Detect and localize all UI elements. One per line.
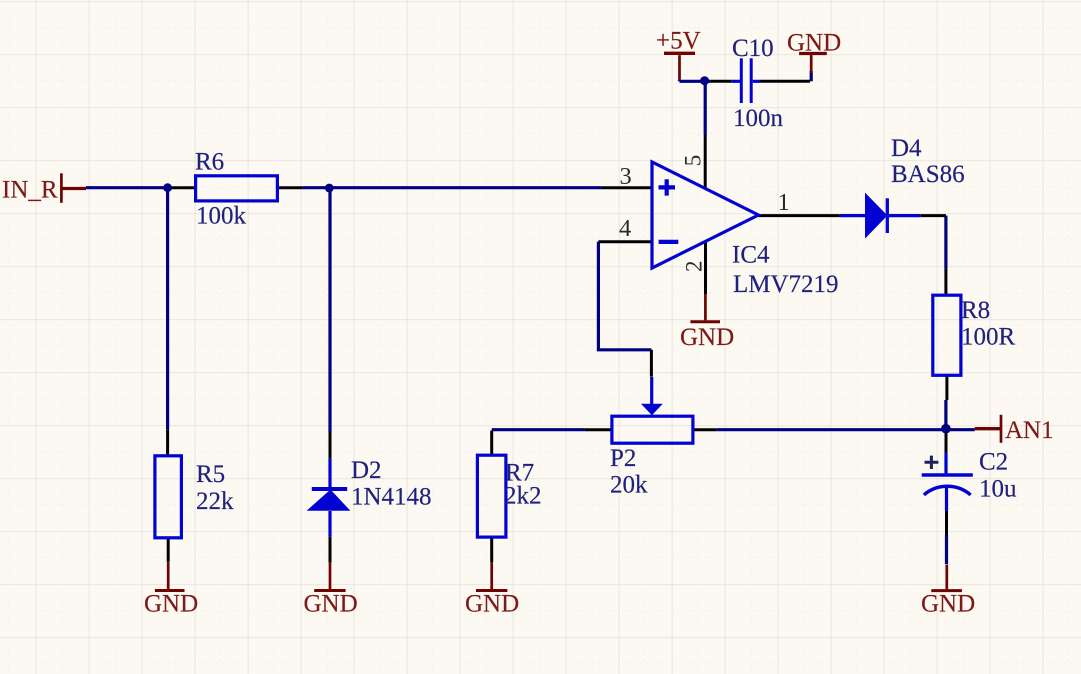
pin: R6 left: [171, 186, 196, 189]
pin: R5 bottom: [167, 538, 170, 562]
pin: op-amp pin4: [598, 240, 652, 243]
pin: R7 top: [490, 431, 493, 456]
pin: op-amp pin5: [704, 135, 707, 189]
resistor R5: [155, 456, 182, 538]
svg-text:C2: C2: [979, 449, 1008, 476]
port AN1: [975, 415, 1001, 443]
wire: down to D2: [328, 188, 331, 432]
ground top right: [799, 54, 827, 74]
svg-text:2: 2: [681, 261, 706, 273]
ground C2: [931, 565, 962, 591]
wire: R8 bottom to junction: [944, 400, 947, 431]
pin: P2 wiper upper: [650, 350, 653, 377]
pin: C10 right: [760, 80, 810, 83]
pin: op-amp pin1: [758, 214, 839, 217]
+5V power symbol: [664, 53, 695, 79]
pin: D2 bottom: [329, 537, 332, 563]
svg-text:GND: GND: [144, 591, 198, 618]
ground R7: [476, 562, 507, 591]
op-amp minus input mark: [659, 240, 679, 244]
pin: C10 left: [711, 80, 732, 83]
svg-text:BAS86: BAS86: [891, 161, 965, 188]
resistor R7: [477, 455, 506, 537]
wire: C2 bottom to GND stub: [945, 535, 948, 564]
svg-text:IN_R: IN_R: [2, 177, 58, 204]
svg-text:R6: R6: [195, 149, 224, 176]
wire: +5V corner to C10: [680, 80, 711, 82]
pin: R5 top: [166, 429, 169, 456]
pin: R7 bottom: [490, 537, 493, 562]
svg-text:GND: GND: [465, 591, 519, 618]
svg-text:100n: 100n: [733, 105, 784, 132]
svg-text:3: 3: [620, 163, 632, 190]
wire: down to R5: [166, 188, 169, 430]
wire: C10 right corner up to GND: [810, 71, 813, 81]
pin: op-amp pin2: [704, 242, 707, 294]
op-amp plus input mark: [659, 179, 676, 195]
svg-text:22k: 22k: [196, 488, 234, 515]
resistor R8: [933, 295, 961, 375]
svg-text:C10: C10: [732, 35, 774, 62]
junction at R5 tap: [163, 183, 172, 192]
junction at D2 tap: [325, 184, 334, 193]
capacitor C10: [732, 58, 760, 103]
svg-text:GND: GND: [304, 591, 358, 618]
ground D2: [314, 563, 345, 591]
diode D2 (1N4148): [307, 458, 351, 536]
wire: R6 right to op-amp pin3: [302, 186, 601, 189]
svg-text:GND: GND: [680, 324, 734, 351]
pin: C2 top black: [945, 432, 948, 453]
pin: R8 top: [944, 269, 947, 296]
port IN_R: [61, 173, 86, 203]
svg-text:+5V: +5V: [656, 28, 701, 55]
svg-text:D2: D2: [351, 457, 382, 484]
wire: D4 cathode corner down to R8: [944, 216, 947, 269]
pin: P2 right: [693, 428, 717, 431]
svg-text:100R: 100R: [961, 324, 1016, 351]
svg-text:LMV7219: LMV7219: [733, 271, 839, 298]
svg-text:P2: P2: [610, 445, 636, 472]
svg-text:R8: R8: [961, 297, 990, 324]
svg-text:5: 5: [680, 155, 705, 167]
svg-text:AN1: AN1: [1005, 417, 1054, 444]
pin: D2 top: [329, 432, 332, 458]
ground R5: [155, 562, 185, 591]
wire: R7 corner to pot left: [492, 428, 585, 431]
svg-text:R5: R5: [196, 461, 225, 488]
junction at +5V / C10: [700, 76, 709, 85]
junction at AN1 node: [941, 424, 951, 434]
op-amp IC4 triangle: [652, 162, 758, 268]
svg-text:D4: D4: [891, 135, 922, 162]
svg-text:IC4: IC4: [732, 242, 770, 269]
pin: R6 right: [277, 186, 302, 189]
pin: P2 left: [585, 428, 612, 431]
svg-text:20k: 20k: [610, 472, 648, 499]
pin: R8 bottom: [945, 375, 948, 400]
ground op-amp pin2: [690, 294, 720, 322]
pin: D4 right black: [921, 214, 946, 217]
potentiometer P2 wiper: [641, 377, 663, 415]
diode D4 (BAS86): [840, 193, 921, 239]
svg-text:GND: GND: [921, 591, 975, 618]
svg-text:4: 4: [619, 215, 631, 242]
resistor R6: [196, 176, 278, 201]
pin: C2 bottom black: [945, 511, 948, 535]
svg-text:1N4148: 1N4148: [351, 484, 432, 511]
wire: pin4 feedback to pot wiper: [598, 242, 651, 350]
wire: pot right to AN1: [717, 428, 975, 431]
svg-text:2k2: 2k2: [504, 483, 542, 510]
wire: junction down to op-amp pin5: [704, 81, 707, 135]
svg-text:10u: 10u: [979, 476, 1017, 503]
svg-text:100k: 100k: [196, 202, 247, 229]
C2 plus sign: [925, 456, 939, 469]
wire: IN_R to R6 left: [86, 186, 171, 189]
pin: op-amp pin3: [601, 186, 652, 189]
capacitor C2 (polarized): [922, 452, 973, 511]
svg-text:1: 1: [778, 189, 790, 216]
svg-text:GND: GND: [787, 30, 841, 57]
potentiometer P2 body: [612, 416, 693, 443]
